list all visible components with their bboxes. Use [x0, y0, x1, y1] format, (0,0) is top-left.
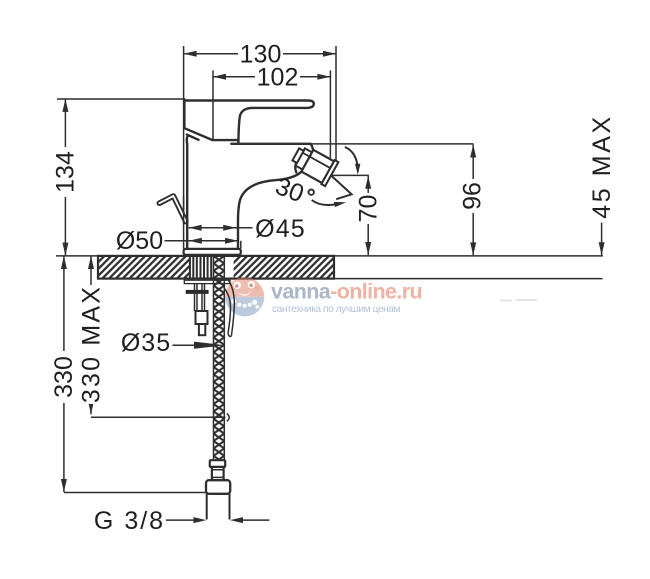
- dimension 102 line: [213, 76, 330, 78]
- G3/8 nipple lines: [207, 494, 230, 520]
- dimension 70 line: [367, 176, 369, 255]
- dimension D50 line: [165, 240, 239, 242]
- hose bottom tube: [212, 467, 224, 480]
- dim D50 arrowhead right: [225, 238, 238, 244]
- dim 330MAX arrowhead bottom: [88, 401, 94, 414]
- text 330: [57, 351, 71, 403]
- watermark logo circle body (blue): [225, 277, 264, 316]
- spout top connector: [311, 144, 314, 150]
- svg-text:G 3/8: G 3/8: [94, 507, 165, 535]
- pop-up rod coupling box: [196, 311, 208, 324]
- handle underside notch: [187, 135, 199, 140]
- pop-up rod lower box: [199, 324, 205, 335]
- svg-text:Ø35: Ø35: [121, 329, 171, 357]
- dim D45 arrowhead left: [189, 225, 202, 231]
- jet cone V: [332, 176, 352, 199]
- dim 96 arrowhead bottom: [470, 242, 476, 255]
- logo white droplets: [231, 299, 236, 304]
- faucet base plate: [184, 249, 241, 255]
- faucet body top front edge: [231, 143, 310, 145]
- faucet handle left edge and underside: [184, 99, 237, 140]
- dim 130 arrowhead right: [323, 51, 336, 57]
- faint ghost marks: [500, 299, 537, 302]
- dim 102 arrowhead left: [213, 74, 226, 80]
- watermark logo head (salmon): [225, 277, 264, 297]
- dim G38 arrowhead right: [230, 517, 243, 523]
- dimension 130 line: [184, 53, 336, 55]
- 30deg upper arc arrowhead: [355, 164, 360, 175]
- dim D45 arrowhead right: [223, 225, 236, 231]
- threaded shank lines in slab hole: [190, 256, 211, 279]
- pop-up lever: [159, 196, 186, 222]
- svg-text:Ø45: Ø45: [255, 215, 306, 243]
- svg-text:70: 70: [355, 195, 383, 223]
- hook on hose: [227, 414, 229, 422]
- spout left profile: [295, 159, 298, 172]
- countertop slab hatched left part: [98, 256, 190, 279]
- degree circle: [309, 190, 314, 195]
- svg-text:102: 102: [257, 64, 299, 92]
- dimension 130 extension right: [335, 46, 337, 163]
- text 102: [255, 65, 300, 88]
- svg-text:vanna-online.ru: vanna-online.ru: [271, 280, 422, 304]
- aerator lengthwise line: [303, 153, 331, 168]
- faucet body left edge: [186, 137, 189, 249]
- dimension 70 extension: [332, 174, 369, 176]
- dim 70 arrowhead bottom: [365, 242, 371, 255]
- dimension 330 bottom extension: [64, 492, 207, 494]
- dimension 134 line: [64, 99, 66, 256]
- second flexible hose (cut off): [229, 281, 235, 336]
- logo eye right: [248, 281, 255, 288]
- hose bottom ferrule: [210, 460, 225, 467]
- 30deg upper arc: [345, 147, 358, 171]
- 30deg label: [272, 172, 308, 208]
- text 130: [238, 42, 283, 65]
- svg-text:134: 134: [52, 151, 80, 193]
- text 70: [361, 193, 375, 224]
- countertop slab top extension left: [56, 255, 98, 257]
- dimension 102 extension right: [329, 70, 331, 157]
- 30deg lower arc arrowhead: [334, 202, 346, 207]
- faucet body right edge / spout underside: [238, 172, 301, 249]
- pop-up rod pair: [195, 284, 205, 311]
- dimension D35 leader: [173, 344, 197, 346]
- flexible hose braid column: [214, 255, 225, 460]
- dim D50 arrowhead left: [189, 238, 202, 244]
- mounting nut: [186, 290, 209, 294]
- washer under slab: [184, 280, 230, 283]
- aerator face plate: [321, 160, 338, 186]
- countertop slab top line right extension: [334, 255, 603, 257]
- countertop slab bottom line right extension: [334, 278, 603, 280]
- dimension 130 extension left: [183, 46, 185, 249]
- faucet handle outline: [184, 101, 313, 144]
- countertop slab outline: [98, 256, 334, 279]
- hose bottom nut: [206, 480, 230, 494]
- logo blush: [229, 287, 234, 292]
- dim 96 arrowhead top: [470, 145, 476, 158]
- svg-text:45 MAX: 45 MAX: [588, 114, 616, 219]
- dimension 134 top extension: [57, 98, 184, 100]
- dimension 102 extension left: [212, 70, 214, 140]
- aerator main box: [301, 150, 334, 183]
- re-draw 130 left extension over lever: [183, 196, 185, 225]
- body top / 96 extension line: [311, 143, 474, 145]
- dimension D45 line: [189, 227, 253, 229]
- countertop slab hatched right part: [234, 256, 334, 279]
- text 330 MAX: [84, 285, 98, 404]
- dimension 45MAX line: [601, 223, 603, 256]
- dim 330MAX arrowhead top: [88, 256, 94, 269]
- dimension G38 right line: [243, 519, 269, 521]
- dim 130 arrowhead left: [184, 51, 197, 57]
- svg-text:96: 96: [458, 182, 486, 210]
- text 45 MAX: [588, 114, 616, 219]
- dim 330 arrowhead bottom: [61, 479, 67, 492]
- dimension 330MAX line: [90, 256, 92, 414]
- dim 102 arrowhead right: [317, 74, 330, 80]
- dimension G38 left line: [166, 519, 195, 521]
- dim 45MAX arrowhead: [599, 242, 605, 255]
- svg-text:сантехника по лучшим ценам: сантехника по лучшим ценам: [272, 304, 400, 315]
- aerator back ring 1: [295, 148, 312, 169]
- dim G38 arrowhead left: [193, 517, 206, 523]
- dimension 96 line: [472, 145, 474, 256]
- dim 70 arrowhead top: [365, 176, 371, 189]
- aerator back ring 2: [292, 148, 303, 163]
- dim D35 arrowhead: [194, 342, 225, 349]
- logo smile: [237, 291, 252, 296]
- dimension D50 right extension: [240, 241, 242, 249]
- text 134: [58, 147, 72, 197]
- logo eye left: [234, 282, 241, 289]
- dim 134 arrowhead bottom: [62, 243, 68, 256]
- aerator block group: [289, 142, 338, 186]
- 30deg lower arc: [312, 200, 335, 205]
- text 96: [465, 179, 479, 213]
- dimension 330MAX bottom extension: [91, 416, 226, 418]
- svg-text:330: 330: [50, 356, 78, 398]
- dimension 330 line: [63, 256, 65, 492]
- dim 134 arrowhead top: [62, 99, 68, 112]
- dim 330 arrowhead top: [61, 256, 67, 269]
- svg-text:Ø50: Ø50: [116, 227, 163, 255]
- svg-text:330 MAX: 330 MAX: [77, 285, 105, 403]
